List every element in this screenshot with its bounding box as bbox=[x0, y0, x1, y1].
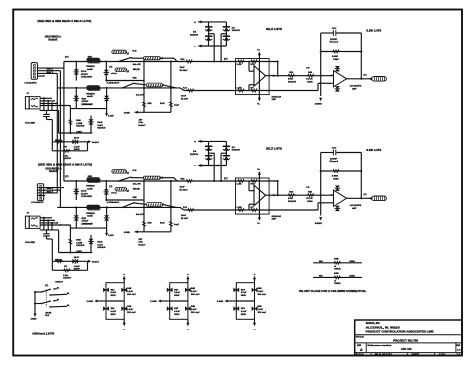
bridge branch right bbox=[225, 22, 227, 46]
svg-text:R.S: R.S bbox=[183, 88, 188, 90]
svg-text:R/B: R/B bbox=[88, 57, 92, 59]
connector J1 bbox=[31, 63, 37, 80]
title block column line 2 bbox=[455, 343, 457, 353]
resistor W10A bbox=[55, 140, 63, 143]
channel 2 (duplicate of channel 1 shifted down) bbox=[25, 140, 386, 280]
connector pill P3 bbox=[115, 68, 126, 72]
bypass cluster 2 box bbox=[170, 283, 188, 320]
svg-text:(SEE SM1 & SM2 REAR A RM-X LHT: (SEE SM1 & SM2 REAR A RM-X LHTS) bbox=[37, 20, 91, 23]
bypass cluster 2 V- lead bbox=[187, 319, 189, 323]
svg-text:AGND: AGND bbox=[315, 102, 322, 105]
svg-text:A: A bbox=[360, 348, 363, 352]
svg-text:0.1uF: 0.1uF bbox=[174, 292, 180, 294]
svg-text:Radio?: Radio? bbox=[138, 125, 146, 127]
title block divider 3 bbox=[355, 352, 462, 354]
transistor Q4 bbox=[223, 36, 230, 40]
wire bus2 lower row bbox=[184, 90, 318, 92]
wire jack cap drop bbox=[51, 120, 53, 142]
svg-text:0.1uF: 0.1uF bbox=[241, 292, 247, 294]
title block bottom tick 1 bbox=[370, 353, 372, 356]
wire J1 pin3 to bus bbox=[38, 72, 58, 74]
wire dpdt pole1 stub bbox=[35, 291, 42, 293]
svg-text:SE.X LHTS: SE.X LHTS bbox=[266, 29, 283, 31]
svg-text:Radio?: Radio? bbox=[92, 142, 100, 144]
jack contact wire 1 bbox=[40, 97, 52, 99]
resistor RW1 bbox=[333, 261, 341, 264]
svg-text:1.054u6uF: 1.054u6uF bbox=[107, 81, 120, 84]
svg-text:1.54B: 1.54B bbox=[76, 122, 82, 125]
switch SW2 blade bbox=[123, 83, 134, 87]
svg-text:(?): (?) bbox=[65, 57, 69, 59]
switch SW1 blade bbox=[119, 57, 131, 61]
wire op-amp inverting input bbox=[318, 82, 334, 84]
svg-text:0.1uF: 0.1uF bbox=[111, 311, 117, 313]
phone jack J2 barrel bbox=[25, 97, 29, 109]
wire lower rail bbox=[59, 132, 93, 134]
wire jack drop 1 bbox=[43, 98, 45, 110]
transistor Q3 bbox=[205, 36, 212, 40]
svg-text:R4B: R4B bbox=[133, 77, 137, 80]
svg-text:V-: V- bbox=[257, 104, 260, 106]
bypass cluster 3 box bbox=[236, 283, 254, 320]
contact dpdt throw1a bbox=[49, 289, 51, 291]
switch SW2 contact right bbox=[133, 83, 135, 85]
dark component box A on bus1 bbox=[87, 58, 100, 62]
resistor R4B vertical bbox=[69, 119, 72, 126]
wire bus1 (upper signal line) bbox=[64, 61, 278, 63]
wire SW2 to pill P4 bbox=[134, 83, 146, 85]
junction bus1/feedback bbox=[277, 60, 279, 62]
wire U1 output bbox=[266, 75, 334, 77]
svg-text:8.06K: 8.06K bbox=[332, 56, 338, 58]
capacitor 3a top-left bbox=[233, 287, 239, 292]
svg-text:RCA-RED: RCA-RED bbox=[25, 122, 35, 125]
wire jack drop 2 bbox=[47, 101, 49, 111]
wire cluster 1 ground lead bbox=[98, 300, 106, 302]
wire divider rail bbox=[138, 111, 171, 113]
wire cap stub top bbox=[46, 110, 48, 114]
wire U1 feedback inner bottom bbox=[248, 85, 250, 91]
jack contact wire 2 bbox=[40, 100, 55, 102]
resistor RW1 line bbox=[313, 262, 362, 264]
svg-text:50V: 4m?: 50V: 4m? bbox=[191, 311, 200, 314]
svg-text:SeLe?R: SeLe?R bbox=[136, 95, 144, 97]
svg-text:0.1uF: 0.1uF bbox=[241, 311, 247, 313]
svg-text:ARUM: ARUM bbox=[45, 311, 51, 314]
svg-text:1.0uF: 1.0uF bbox=[127, 291, 133, 293]
svg-text:1.0uF: 1.0uF bbox=[258, 291, 264, 293]
svg-text:1.01R: 1.01R bbox=[108, 116, 114, 118]
svg-text:471SY: 471SY bbox=[81, 73, 89, 76]
svg-text:AGND: AGND bbox=[124, 111, 130, 114]
op-amp U1 package box bbox=[236, 59, 270, 95]
arrow dpdt ground bbox=[34, 313, 37, 317]
pin 1 J1 bbox=[34, 65, 36, 67]
svg-text:R4B: R4B bbox=[148, 102, 152, 105]
pin 5 J1 bbox=[34, 76, 36, 78]
arrow divider rail ground bbox=[135, 111, 138, 114]
svg-text:R?K: R?K bbox=[251, 64, 256, 66]
svg-text:R4.B: R4.B bbox=[97, 121, 102, 124]
svg-text:S.BD LHTS: S.BD LHTS bbox=[366, 30, 382, 32]
wire diode drop bbox=[90, 116, 92, 134]
svg-text:(?): (?) bbox=[364, 74, 367, 76]
resistor U1 top-mid bbox=[250, 60, 258, 63]
svg-text:Ang?: Ang? bbox=[174, 104, 180, 107]
svg-text:(?): (?) bbox=[224, 59, 228, 61]
wire loop right bbox=[87, 142, 89, 151]
bypass cluster 3 divider bbox=[236, 300, 254, 302]
switch SW1 contact right bbox=[131, 57, 133, 59]
junction output node A bbox=[273, 75, 275, 77]
contact dpdt throw2a bbox=[49, 300, 51, 302]
svg-text:w?act: w?act bbox=[111, 72, 117, 75]
wire bus2 riser to op-amp bbox=[317, 83, 319, 90]
junction tap left bus1 bbox=[213, 60, 215, 62]
svg-text:SM-1: SM-1 bbox=[47, 68, 54, 70]
wire divider drop 1 bbox=[143, 60, 145, 113]
diode bridge rail - bbox=[202, 45, 227, 47]
capacitor 2d bottom-right bbox=[185, 306, 191, 311]
pin 4 J3 bbox=[40, 194, 42, 196]
svg-text:C6R4: C6R4 bbox=[349, 275, 355, 278]
wire dpdt throw2b bbox=[50, 305, 67, 308]
svg-text:LUCASARTS: LUCASARTS bbox=[25, 82, 37, 85]
svg-text:R1S: R1S bbox=[289, 72, 293, 74]
pin 5 J3 bbox=[40, 197, 42, 199]
feedback top wire bbox=[321, 32, 333, 34]
wire J1 pin2 to bus bbox=[38, 70, 61, 72]
junction contact bus crossing bbox=[56, 103, 58, 105]
svg-text:1.0uF: 1.0uF bbox=[191, 291, 197, 293]
svg-text:1.8n: 1.8n bbox=[138, 122, 143, 124]
title block outer bbox=[355, 320, 462, 356]
svg-text:R4B: R4B bbox=[334, 257, 339, 260]
op-amp U1 triangle bbox=[254, 66, 266, 87]
feedback right vertical bbox=[360, 33, 362, 79]
arrow bridge - terminal bbox=[198, 45, 201, 48]
svg-text:R1B: R1B bbox=[258, 306, 262, 308]
svg-text:RADIOS: RADIOS bbox=[232, 29, 241, 32]
phone jack J2 body bbox=[29, 97, 40, 109]
pin 3 J3 bbox=[40, 192, 42, 194]
svg-text:R4B: R4B bbox=[334, 272, 339, 275]
svg-text:RADIUS: RADIUS bbox=[97, 127, 106, 130]
diode D2A bbox=[74, 96, 80, 101]
wire mid line 2 bbox=[70, 108, 106, 110]
diode clamp U2 top bbox=[335, 66, 341, 71]
wire cluster 3 ground lead bbox=[228, 300, 236, 302]
svg-text:-: - bbox=[331, 82, 333, 85]
svg-text:C6R4: C6R4 bbox=[349, 260, 355, 263]
wire bus2 (lower signal line) bbox=[57, 87, 180, 89]
bypass cluster 3 V- lead bbox=[254, 319, 256, 323]
svg-text:(SEE SM1 & SM2 REAR A RM-X LHT: (SEE SM1 & SM2 REAR A RM-X LHTS) bbox=[38, 163, 92, 166]
transistor Q2 bbox=[223, 27, 230, 31]
svg-text:1.04R: 1.04R bbox=[87, 300, 94, 303]
junction bus1 branch1b bbox=[105, 60, 107, 62]
junction vertical b bus2 bbox=[59, 87, 61, 89]
svg-text:Bi rMa?: Bi rMa? bbox=[180, 70, 189, 72]
svg-text:R4B: R4B bbox=[191, 287, 195, 290]
junction divider2 bus1 bbox=[170, 60, 172, 62]
power V+ rail U1 bbox=[258, 53, 260, 101]
svg-text:0.1uF: 0.1uF bbox=[174, 311, 180, 313]
svg-text:C684: C684 bbox=[307, 80, 313, 83]
junction feedback minus line bbox=[320, 82, 322, 84]
svg-text:(?): (?) bbox=[45, 285, 48, 287]
diode D4 on snubber bbox=[72, 139, 78, 144]
svg-text:10uF: 10uF bbox=[180, 67, 186, 69]
wire feedback drop from bus1 bbox=[277, 62, 279, 76]
diode D3 bbox=[88, 119, 94, 124]
svg-text:Bi rM?: Bi rM? bbox=[181, 98, 189, 100]
wire vertical diode branch 2a bbox=[75, 88, 77, 109]
diode clamp U2 bottom bbox=[335, 86, 341, 91]
svg-text:LTRL061R: LTRL061R bbox=[82, 104, 93, 106]
svg-text:C684: C684 bbox=[333, 58, 339, 61]
capacitor 3b top-right bbox=[252, 287, 258, 292]
connector pill P2 in series bbox=[143, 57, 160, 60]
svg-text:C6R4R: C6R4R bbox=[334, 282, 341, 285]
transistor Q1 bbox=[205, 27, 212, 31]
bypass cluster 1 V- lead bbox=[123, 319, 125, 323]
wire jack drop 3 bbox=[51, 103, 53, 110]
svg-text:R.B: R.B bbox=[133, 50, 137, 52]
resistor U1 top-left bbox=[237, 60, 245, 63]
resistor U1 bottom-mid bbox=[250, 89, 258, 92]
pin 2 J1 bbox=[34, 67, 36, 69]
terminal bar throw1a bbox=[54, 288, 57, 290]
capacitor 3d bottom-right bbox=[252, 306, 258, 311]
junction feedback output bbox=[360, 78, 362, 80]
wire long vertical bus a bbox=[63, 62, 65, 182]
svg-text:LTRL061R: LTRL061R bbox=[81, 77, 92, 79]
svg-text:0.1uF: 0.1uF bbox=[111, 292, 117, 294]
svg-text:R1B: R1B bbox=[191, 306, 195, 308]
pin 4 J1 bbox=[34, 73, 36, 75]
svg-text:RADIO?: RADIO? bbox=[55, 281, 63, 284]
svg-text:1.0uF: 1.0uF bbox=[191, 309, 197, 311]
title block bottom tick 2 bbox=[407, 353, 409, 356]
svg-text:1.0uF: 1.0uF bbox=[258, 309, 264, 311]
svg-text:4x45: 4x45 bbox=[87, 68, 93, 71]
wire vertical diode branch 1a bbox=[75, 62, 77, 81]
pin 3 J1 bbox=[34, 70, 36, 72]
wire bus2 step bbox=[180, 88, 184, 91]
svg-text:R1S: R1S bbox=[181, 59, 185, 61]
arrow bridge + terminal bbox=[198, 20, 201, 23]
ground arrow below midline2 bbox=[106, 109, 108, 114]
junction bus2 branch2b bbox=[106, 87, 108, 89]
svg-text:1.0K: 1.0K bbox=[237, 64, 242, 66]
capacitor jack plate 2 bbox=[43, 116, 50, 118]
svg-text:900UF: 900UF bbox=[74, 149, 81, 151]
svg-text:50UH: 50UH bbox=[111, 295, 116, 297]
svg-text:50V: 4m?: 50V: 4m? bbox=[191, 293, 200, 296]
wire bridge tap left bbox=[209, 33, 215, 35]
svg-text:CA?: CA? bbox=[332, 27, 337, 30]
wire lower rail drop bbox=[58, 110, 60, 133]
capacitor 1d bottom-right bbox=[121, 306, 127, 311]
arrow AGND feedback bbox=[319, 98, 322, 102]
arrow pill P1 bbox=[126, 52, 128, 54]
jack spring contact bottom bbox=[31, 105, 38, 107]
svg-text:D1.R: D1.R bbox=[81, 71, 87, 73]
capacitor C1 feedback bbox=[332, 30, 334, 36]
wire snubber line bbox=[52, 141, 87, 143]
svg-text:(?): (?) bbox=[109, 66, 112, 68]
switch SW2 contact left bbox=[122, 87, 124, 89]
junction divider2 bus2 bbox=[170, 87, 172, 89]
capacitor 2c bottom-left bbox=[167, 306, 173, 311]
svg-text:PRODUCT CONTROLATION ASSOCIAT: PRODUCT CONTROLATION ASSOCIATED LINE bbox=[366, 330, 435, 333]
svg-text:10.0?: 10.0? bbox=[74, 138, 80, 140]
svg-text:ABC 123: ABC 123 bbox=[401, 348, 412, 351]
wire U2 output bbox=[347, 78, 372, 80]
capacitor 2b top-right bbox=[185, 287, 191, 292]
junction jack 2 bbox=[47, 100, 49, 102]
switch dpdt blade 1 bbox=[41, 291, 43, 293]
connector J3 bbox=[37, 184, 43, 201]
svg-text:C?i: C?i bbox=[306, 67, 310, 69]
junction dpdt pole1 bbox=[34, 291, 36, 293]
pin 1 J3 bbox=[40, 186, 42, 188]
capacitor 1c bottom-left bbox=[103, 306, 109, 311]
feedback mid wire bbox=[321, 51, 362, 53]
svg-text:50UH: 50UH bbox=[174, 295, 179, 297]
svg-text:CO.OK: CO.OK bbox=[306, 79, 313, 81]
junction tap right bus1 bbox=[220, 60, 222, 62]
title block divider 2 bbox=[355, 342, 462, 344]
svg-text:Reference number: Reference number bbox=[368, 345, 392, 347]
resistor R2S output bbox=[307, 74, 315, 77]
wire loop left bbox=[51, 142, 53, 151]
wire vertical diode branch 2b bbox=[106, 88, 108, 109]
bypass cluster 1 box bbox=[106, 283, 124, 320]
resistor loop bottom bbox=[63, 149, 71, 152]
svg-text:R4B: R4B bbox=[76, 119, 81, 122]
bypass cluster 1 divider bbox=[106, 300, 124, 302]
wire loop bottom bbox=[52, 150, 87, 152]
svg-text:R1B: R1B bbox=[127, 306, 131, 308]
title block column line 1 bbox=[365, 343, 367, 353]
junction output feedback node bbox=[320, 75, 322, 77]
svg-text:3.4k?: 3.4k? bbox=[97, 124, 103, 127]
resistor U1 bottom-left bbox=[237, 89, 245, 92]
resistor R2B on bus2 bbox=[187, 89, 195, 92]
bypass cluster 3 V+ lead bbox=[254, 279, 256, 283]
wire dpdt throw1b bbox=[50, 293, 67, 296]
arrow pill P3 bbox=[126, 70, 128, 72]
svg-text:900AUX: 900AUX bbox=[288, 80, 297, 83]
svg-text:1.04R: 1.04R bbox=[150, 300, 157, 303]
svg-text:50UH: 50UH bbox=[241, 295, 246, 297]
bridge branch left bbox=[208, 22, 210, 46]
svg-text:4x45: 4x45 bbox=[87, 95, 93, 98]
connector pill P4 in series bbox=[146, 83, 162, 87]
op-amp U2 triangle bbox=[334, 71, 347, 87]
wire mid line 1 bbox=[106, 80, 144, 82]
wire cap stub bottom bbox=[46, 117, 48, 120]
contact dpdt throw1b bbox=[49, 294, 51, 296]
power V- arrow U1 bbox=[258, 98, 261, 102]
wire bridge tap right bbox=[221, 33, 226, 35]
capacitor 1a top-left bbox=[103, 287, 109, 292]
junction bus1 branch1a bbox=[75, 60, 77, 62]
junction bus2 branch2a bbox=[75, 87, 77, 89]
resistor R1S output bbox=[287, 74, 295, 77]
junction lower rail bbox=[69, 132, 71, 134]
svg-text:LUM: LUM bbox=[237, 87, 242, 89]
junction feedback mid right bbox=[360, 50, 362, 52]
resistor RD1 vertical bbox=[143, 101, 146, 108]
svg-text:50V: 4m?: 50V: 4m? bbox=[258, 293, 267, 296]
svg-text:R1A: R1A bbox=[45, 314, 49, 317]
junction feedback mid left bbox=[320, 50, 322, 52]
svg-text:JE?: JE? bbox=[138, 119, 143, 121]
bypass cluster 2 V+ lead bbox=[187, 279, 189, 283]
wire divider drop 2 bbox=[170, 62, 172, 113]
svg-text:RADIO?: RADIO? bbox=[63, 157, 72, 160]
junction dpdt pole2 bbox=[34, 302, 36, 304]
wire pill P4 out bbox=[163, 85, 177, 88]
svg-text:LUCASARTS: LUCASARTS bbox=[31, 201, 43, 204]
wire J1 pin4 stub bbox=[38, 75, 46, 77]
junction feedback/output bbox=[277, 75, 279, 77]
junction jack 3 bbox=[51, 102, 53, 104]
diode D1A bbox=[74, 69, 80, 74]
resistor RD2 vertical bbox=[169, 101, 172, 108]
arrow snubber out bbox=[88, 140, 91, 143]
svg-text:R4B: R4B bbox=[127, 287, 131, 290]
jack contact wire 4 bbox=[40, 105, 70, 107]
wire U1 feedback inner top bbox=[248, 62, 250, 72]
svg-text:50UH: 50UH bbox=[241, 314, 246, 316]
svg-text:R4B: R4B bbox=[258, 287, 262, 290]
svg-text:50UH: 50UH bbox=[111, 314, 116, 316]
svg-text:BE ART PLACE FOR A COLUMNS COR: BE ART PLACE FOR A COLUMNS CORRECTUAL bbox=[299, 290, 367, 293]
wire SW1 to pill P2 bbox=[132, 57, 144, 59]
resistor RW2 bbox=[333, 276, 341, 279]
svg-text:1.04R: 1.04R bbox=[217, 300, 224, 303]
junction jack 1 bbox=[43, 97, 45, 99]
svg-text:LUCASARTS: LUCASARTS bbox=[350, 85, 362, 88]
title block bottom tick 3 bbox=[434, 353, 436, 356]
svg-text:RADIUS: RADIUS bbox=[76, 125, 85, 128]
wire vertical diode branch 1b bbox=[105, 62, 107, 81]
diode bridge rail + bbox=[202, 21, 227, 23]
svg-text:101RF: 101RF bbox=[330, 39, 338, 41]
jack spring contact top bbox=[31, 98, 38, 100]
svg-text:R4.B: R4.B bbox=[160, 102, 165, 105]
svg-text:SeLe?R: SeLe?R bbox=[133, 64, 141, 66]
svg-text:C6R4R: C6R4R bbox=[334, 268, 341, 271]
dpdt gang dashed link bbox=[45, 290, 47, 307]
terminal bar throw2a bbox=[54, 300, 57, 302]
svg-text:471SY: 471SY bbox=[82, 100, 90, 103]
title block divider 1 bbox=[355, 334, 462, 336]
capacitor jack plate 1 bbox=[43, 113, 50, 115]
wire jack drop bbox=[69, 106, 71, 134]
svg-text:ALCOHOL, W. 80210: ALCOHOL, W. 80210 bbox=[366, 327, 401, 330]
svg-text:C6R?: C6R? bbox=[76, 131, 82, 133]
connector pill P1 bbox=[112, 50, 127, 53]
resistor R1B on bus1 bbox=[185, 60, 193, 63]
wire dpdt left vertical bbox=[34, 292, 36, 313]
wire long vertical bus c bbox=[56, 73, 58, 192]
dark component box B on bus2 bbox=[87, 86, 100, 90]
